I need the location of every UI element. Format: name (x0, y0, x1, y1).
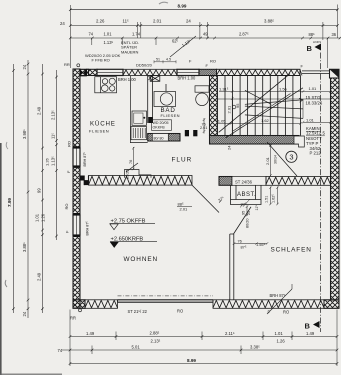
section marker B top (307, 40, 322, 53)
bath door jamb blocks (185, 130, 189, 136)
svg-text:62⁵: 62⁵ (172, 39, 179, 44)
kitchen/bath partition wall (148, 76, 153, 124)
svg-text:1.01: 1.01 (275, 331, 284, 336)
bottom row A chain (69, 335, 339, 338)
left F/RO floor labels (64, 141, 72, 233)
svg-text:3.88⁵: 3.88⁵ (264, 18, 274, 23)
svg-text:1.01: 1.01 (35, 213, 40, 222)
svg-text:OKKFB: OKKFB (153, 125, 166, 129)
svg-text:B: B (307, 44, 313, 53)
level marker OKFFB (110, 219, 155, 230)
top extension lines (70, 5, 337, 69)
truss part above schlafen (266, 177, 331, 186)
kitchen sink unit (132, 111, 147, 125)
svg-text:1.31⁵: 1.31⁵ (219, 86, 229, 91)
left smudges (5, 280, 7, 287)
middle wall flur/wohnen truss (89, 176, 193, 186)
svg-text:RR: RR (70, 316, 76, 321)
svg-text:1.74: 1.74 (132, 31, 141, 36)
svg-text:2.87⁵: 2.87⁵ (239, 31, 249, 36)
svg-text:1.01: 1.01 (104, 31, 113, 36)
svg-text:24: 24 (60, 21, 65, 26)
svg-text:5.01: 5.01 (132, 345, 141, 350)
svg-text:1.49: 1.49 (306, 331, 315, 336)
corner bottom-right (324, 300, 339, 309)
corner hatch bottom-left (73, 300, 85, 309)
svg-text:2.11⁵: 2.11⁵ (225, 331, 235, 336)
svg-text:RO: RO (67, 141, 72, 147)
svg-text:8.99: 8.99 (187, 358, 196, 363)
svg-text:25: 25 (247, 211, 251, 215)
abst closet walls (231, 185, 262, 204)
svg-text:1.01: 1.01 (306, 117, 315, 122)
svg-text:12.5x12.5: 12.5x12.5 (306, 131, 325, 136)
svg-text:51: 51 (156, 58, 160, 62)
scan artifact left edge line (0, 143, 2, 375)
svg-text:RO: RO (64, 204, 69, 210)
shower text (153, 121, 169, 140)
kitchen counter edge (130, 76, 147, 143)
level marker KRFB (110, 237, 157, 248)
svg-text:24: 24 (22, 64, 27, 69)
stair dim line y123 (217, 122, 301, 125)
kitchen window top (87, 69, 124, 75)
slanted 1.13_5 annotation with leader (170, 36, 196, 57)
stair break diagonals (219, 74, 303, 138)
stair bottom wall hatched (210, 136, 300, 145)
svg-text:74: 74 (58, 348, 63, 353)
svg-text:95: 95 (242, 211, 246, 215)
schlafen interior dim (233, 242, 269, 245)
svg-text:3.38⁵: 3.38⁵ (250, 345, 260, 350)
svg-text:95: 95 (235, 103, 240, 108)
bath inner dim (203, 118, 206, 134)
svg-text:2.88⁵: 2.88⁵ (150, 330, 160, 335)
stair dim line y91.5 (219, 90, 332, 93)
door leaf wohnen-schlafen D1 (192, 185, 219, 212)
svg-text:F FFB RO: F FFB RO (92, 58, 110, 63)
svg-text:1.62⁵: 1.62⁵ (272, 194, 276, 203)
small 51 45 ticks annotation (156, 58, 171, 62)
svg-text:11⁵: 11⁵ (255, 205, 259, 211)
F RO labels above stair wall (189, 59, 304, 69)
svg-text:RR: RR (64, 62, 70, 67)
schlafen small vertical dims (246, 205, 249, 216)
bottom truss 213-324 schlafen (213, 300, 324, 309)
stair treads (217, 76, 300, 136)
left exterior wall hatched segments (73, 69, 80, 308)
svg-text:8.99: 8.99 (178, 4, 187, 9)
svg-text:1.26: 1.26 (277, 338, 286, 343)
kamin annotation block (306, 126, 325, 155)
svg-text:2.01: 2.01 (180, 206, 189, 211)
stair door dim 1.01 (302, 121, 332, 124)
corner column marker black bowtie top-left (80, 69, 87, 76)
middle wall left door jamb (80, 176, 89, 186)
svg-text:1.26: 1.26 (41, 213, 46, 222)
chain C (41, 64, 44, 313)
svg-text:2.49: 2.49 (37, 106, 42, 115)
svg-text:KÜCHE: KÜCHE (90, 121, 116, 128)
lintel box ST 24/36 (232, 177, 266, 186)
stove unit with 4 burners (95, 77, 117, 93)
svg-text:2.13⁵: 2.13⁵ (151, 338, 161, 343)
bath bottom wall hatched (148, 130, 198, 141)
wohnen door dims 88.5/2.01 (178, 195, 247, 211)
svg-text:1.62: 1.62 (261, 118, 270, 123)
svg-text:1.13⁵: 1.13⁵ (51, 156, 56, 166)
svg-text:WOHNEN: WOHNEN (124, 256, 159, 263)
wohnen/schlafen divider wall (230, 234, 234, 300)
ENTL annotation block (121, 40, 153, 68)
door leaf schlafen D2 (234, 207, 252, 234)
svg-text:2.13⁵: 2.13⁵ (51, 110, 56, 120)
stair annotation 15 STG (306, 95, 323, 105)
chain A 7.99 (12, 64, 15, 313)
svg-text:ST 21⁵/ 22: ST 21⁵/ 22 (128, 309, 148, 314)
top row2 chain (69, 24, 339, 27)
svg-text:18.33/26: 18.33/26 (306, 100, 323, 105)
svg-text:30/14: 30/14 (274, 155, 278, 164)
svg-text:RO: RO (210, 59, 216, 64)
stair start circle (232, 105, 236, 109)
svg-text:RO: RO (177, 309, 183, 314)
svg-text:2.01: 2.01 (265, 156, 270, 165)
top row3 chain (69, 37, 341, 40)
bottom long window wohnen (118, 296, 214, 302)
label BAD (161, 107, 180, 118)
top wall truss 123-177 (123, 69, 177, 75)
bath window top BRH 1.00 (177, 69, 199, 75)
flur vertical dim at stair door (269, 144, 272, 176)
BRH 87.5 schlafen with leader (267, 284, 292, 314)
svg-text:1.55⁵: 1.55⁵ (256, 242, 266, 247)
svg-text:1.26: 1.26 (45, 157, 50, 166)
svg-text:24: 24 (22, 311, 27, 316)
svg-text:DD50/20: DD50/20 (136, 62, 153, 67)
svg-text:11⁵: 11⁵ (51, 133, 56, 139)
svg-text:80/ 80: 80/ 80 (154, 136, 164, 140)
top right corner block (330, 69, 340, 78)
svg-text:87⁵: 87⁵ (241, 245, 247, 250)
svg-text:FLIESEN: FLIESEN (89, 128, 109, 133)
section marker B bottom (305, 321, 320, 331)
svg-text:P 212: P 212 (310, 150, 322, 155)
top row1 8.99 (69, 8, 339, 11)
bottom row C chain 8.99 (69, 362, 339, 365)
wc (195, 86, 209, 106)
right exterior wall (331, 78, 340, 300)
abst/schlafen top wall left part (219, 177, 331, 186)
svg-text:1.49: 1.49 (86, 331, 95, 336)
svg-text:BRH 87⁵: BRH 87⁵ (83, 152, 87, 167)
svg-text:ST 24/36: ST 24/36 (235, 180, 253, 185)
svg-text:76: 76 (238, 239, 242, 244)
kitchen drawers (131, 127, 147, 140)
svg-text:3.88⁵: 3.88⁵ (22, 242, 27, 252)
top wall truss 199-300 (199, 69, 217, 75)
svg-text:SCHLAFEN: SCHLAFEN (271, 247, 312, 254)
svg-text:2.01: 2.01 (153, 18, 162, 23)
svg-text:B: B (305, 322, 311, 331)
svg-text:74: 74 (89, 31, 94, 36)
svg-text:24: 24 (227, 145, 232, 150)
svg-text:2.26: 2.26 (96, 18, 105, 23)
bottom extension lines (70, 310, 337, 367)
stair walking zigzag (245, 98, 303, 118)
chain D (55, 70, 58, 240)
svg-text:25/25: 25/25 (126, 169, 130, 179)
svg-text:88⁵: 88⁵ (309, 32, 316, 37)
stair flight divider (217, 98, 330, 100)
svg-text:99: 99 (37, 188, 42, 193)
svg-text:3: 3 (289, 153, 293, 162)
bottom exterior wall band (73, 296, 339, 308)
svg-text:MAUERN: MAUERN (121, 49, 138, 54)
svg-text:76: 76 (129, 160, 133, 164)
svg-text:BRH 1.00: BRH 1.00 (178, 76, 196, 81)
boiler block (150, 76, 166, 92)
svg-text:24: 24 (186, 18, 191, 23)
bottom labels near wall (70, 309, 289, 321)
bottom truss 85-117 (85, 300, 118, 309)
svg-text:FLIESEN: FLIESEN (161, 113, 180, 118)
svg-text:1.01: 1.01 (309, 86, 318, 91)
BRH 87.5 rotated window labels left wall (83, 152, 90, 236)
kitchen step dim (132, 147, 135, 170)
svg-text:1.56: 1.56 (279, 86, 288, 91)
svg-text:LINKS: LINKS (313, 40, 321, 44)
svg-text:36: 36 (332, 32, 337, 37)
left wall window wohnen BRH 87.5 (73, 213, 80, 237)
svg-text:RO: RO (283, 310, 289, 315)
svg-text:2.01: 2.01 (200, 126, 207, 130)
left wall window kitchen BRH 87.5 (73, 146, 80, 168)
chain B (27, 60, 30, 318)
bottom row B chain (62, 349, 338, 352)
label KUECHE (89, 121, 116, 134)
circled 3 (286, 151, 297, 162)
svg-text:BRH 1.00: BRH 1.00 (118, 77, 136, 82)
chimney kamin block in wall (294, 136, 304, 147)
svg-text:1.13⁵: 1.13⁵ (104, 40, 114, 45)
kitchen SE corner step (125, 170, 152, 178)
wall top annotation WD (85, 53, 121, 63)
top exterior wall band (80, 69, 300, 75)
RR marker top-left (64, 62, 80, 67)
svg-text:2.49: 2.49 (37, 272, 42, 281)
kitchen door leaf (126, 163, 138, 172)
door lintel top right (thin lines) (300, 69, 330, 75)
svg-text:11⁵: 11⁵ (123, 18, 129, 23)
shower annotation box WD20/05 (152, 120, 172, 131)
smudge artifact top (159, 2, 168, 4)
svg-text:7.99: 7.99 (7, 198, 12, 207)
flur to stair door swing (267, 142, 297, 176)
svg-text:2.01: 2.01 (227, 105, 232, 114)
svg-text:4.5: 4.5 (166, 58, 171, 62)
svg-text:1.51: 1.51 (265, 196, 269, 203)
washbasin (154, 92, 176, 107)
stair vertical dim x232 (231, 96, 234, 136)
svg-text:80/20: 80/20 (246, 218, 250, 228)
svg-text:3.98⁵: 3.98⁵ (22, 129, 27, 139)
svg-text:BRH 87⁵: BRH 87⁵ (85, 221, 89, 236)
svg-text:1.05: 1.05 (218, 119, 227, 124)
stair left wall hatched (210, 76, 218, 136)
svg-text:ABST.: ABST. (237, 192, 256, 198)
svg-text:FLUR: FLUR (172, 157, 193, 164)
